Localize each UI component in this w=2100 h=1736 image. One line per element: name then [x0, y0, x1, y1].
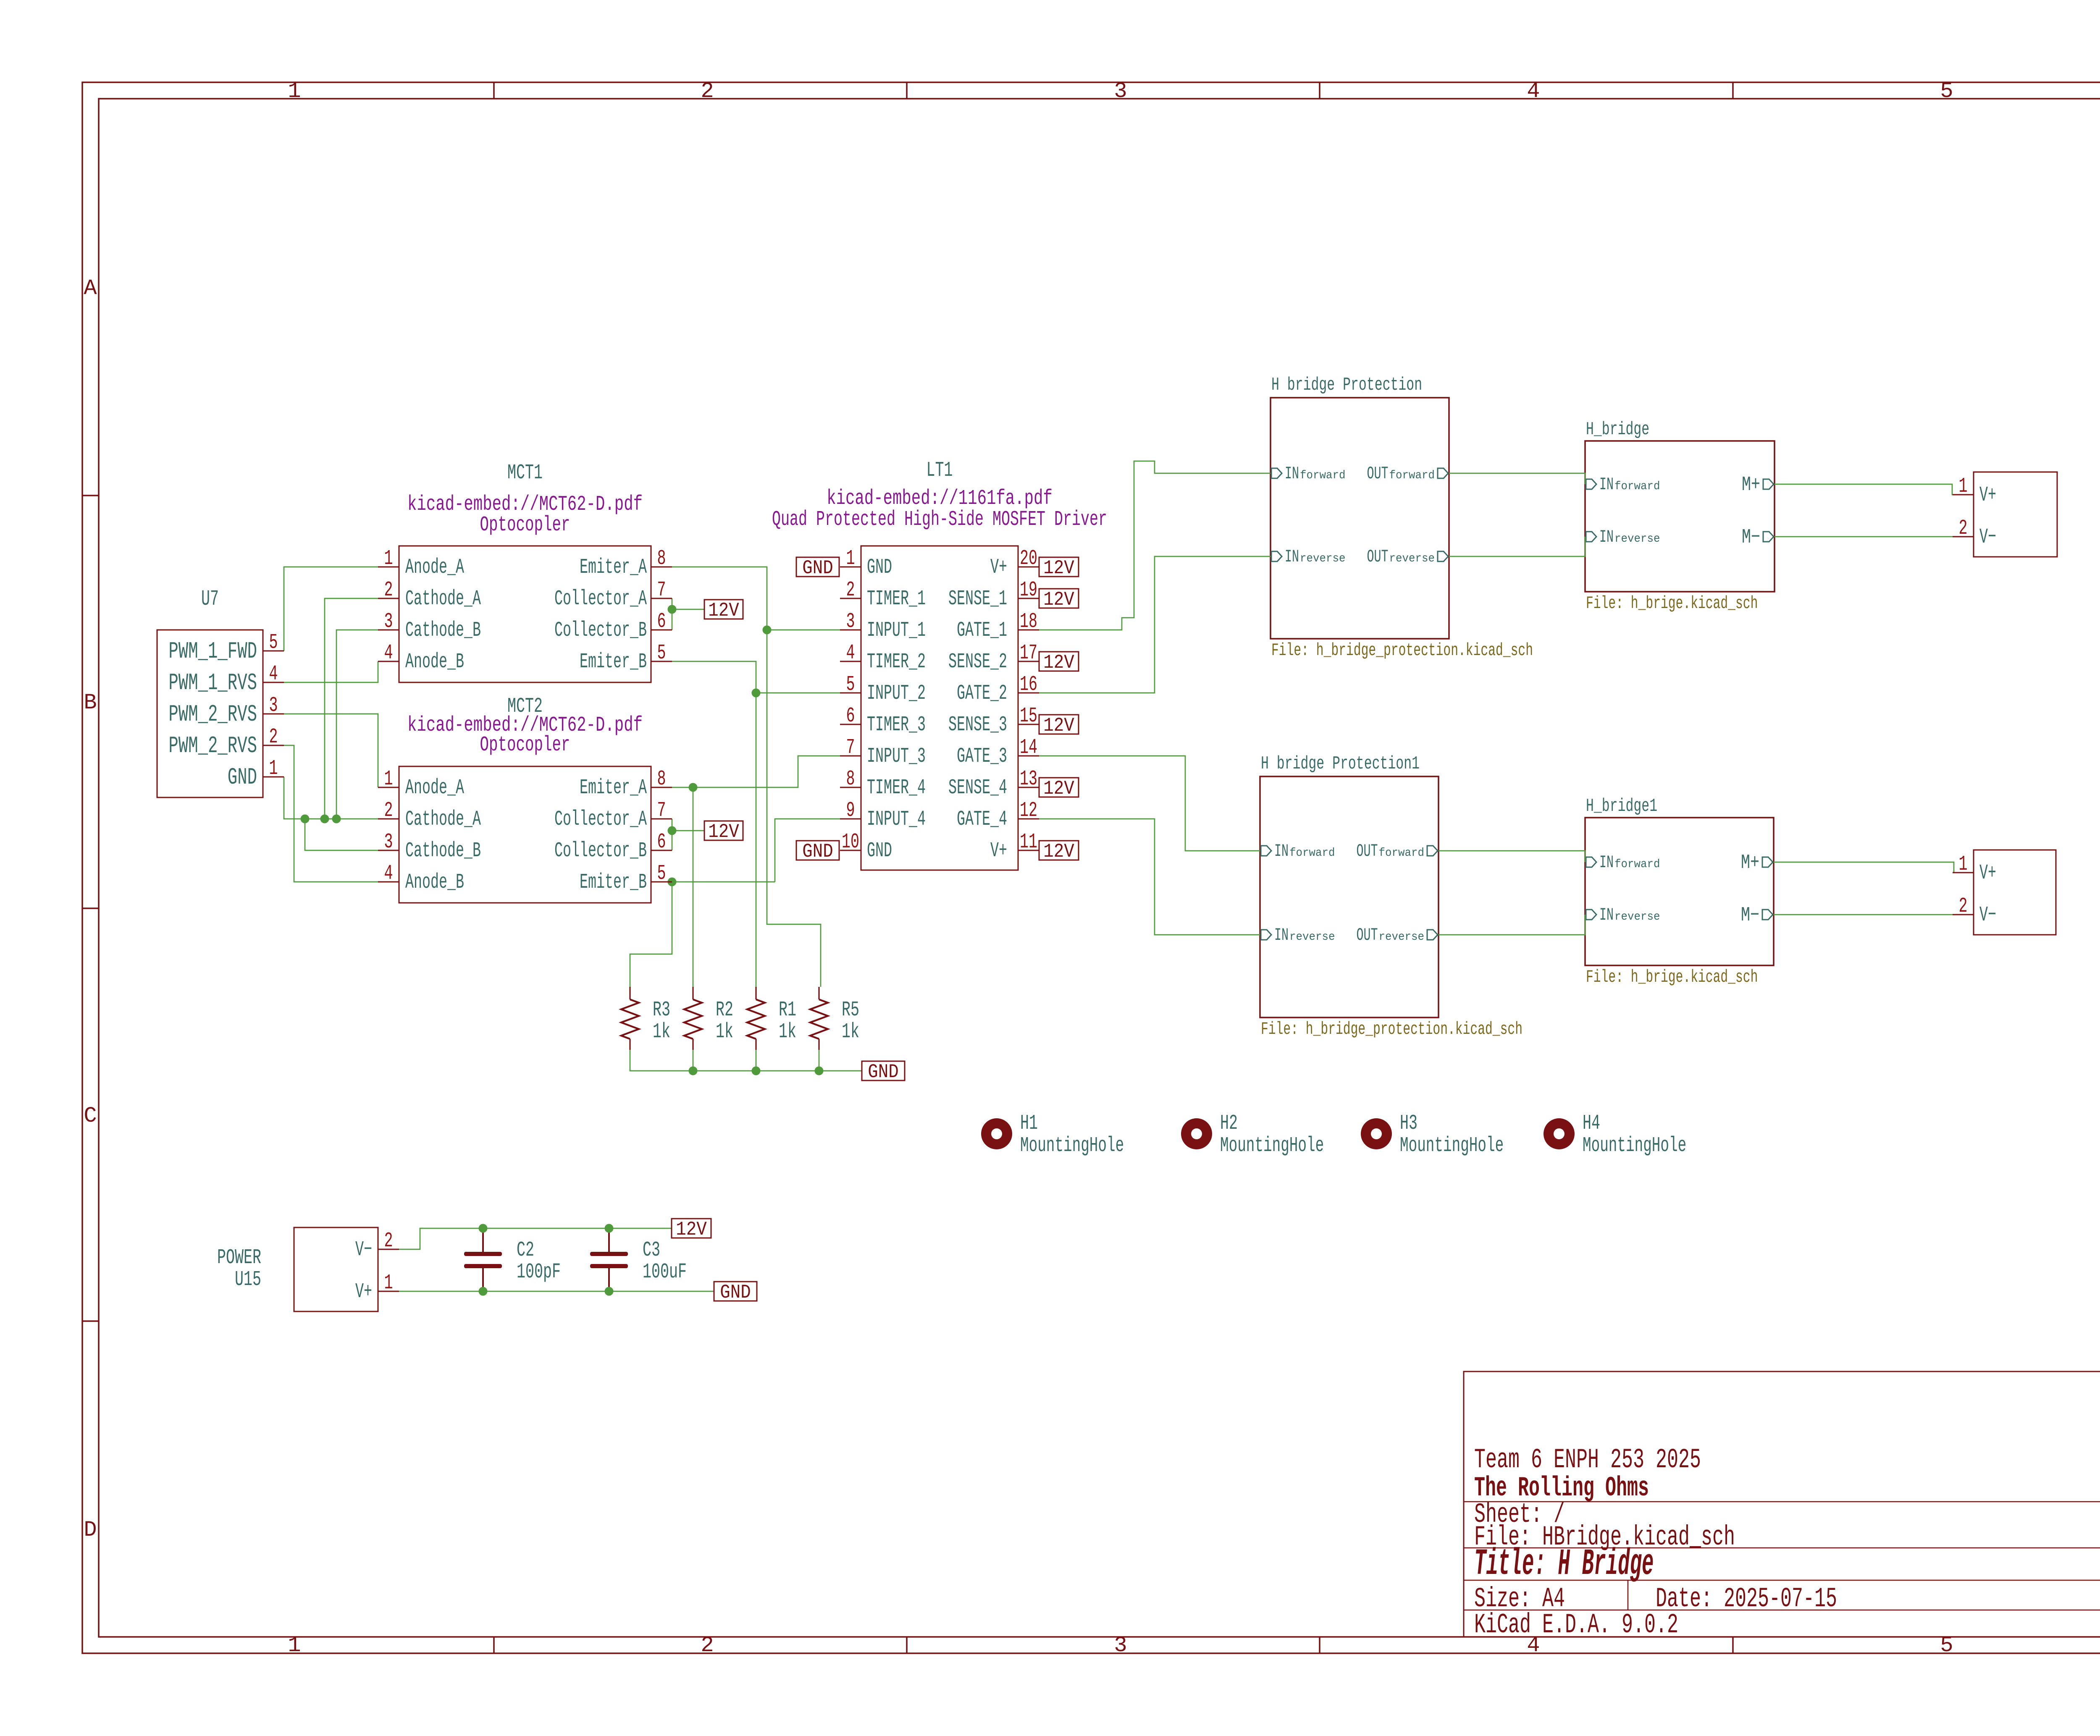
svg-text:Date: 2025-07-15: Date: 2025-07-15 — [1656, 1583, 1837, 1615]
svg-text:3: 3 — [846, 610, 855, 634]
svg-text:File: h_brige.kicad_sch: File: h_brige.kicad_sch — [1586, 593, 1758, 614]
svg-text:INPUT_4: INPUT_4 — [867, 808, 926, 831]
svg-text:MountingHole: MountingHole — [1400, 1134, 1504, 1158]
svg-text:INPUT_1: INPUT_1 — [867, 619, 926, 642]
svg-text:IN: IN — [1599, 905, 1614, 925]
svg-text:Emiter_A: Emiter_A — [580, 776, 647, 800]
svg-text:M+: M+ — [1741, 852, 1759, 874]
svg-text:MountingHole: MountingHole — [1220, 1134, 1324, 1158]
svg-text:MountingHole: MountingHole — [1020, 1134, 1124, 1158]
svg-text:TIMER_3: TIMER_3 — [867, 713, 926, 737]
svg-text:M+: M+ — [1742, 474, 1760, 496]
svg-text:forward: forward — [1389, 469, 1435, 482]
svg-text:M−: M− — [1742, 526, 1760, 549]
svg-text:Emiter_A: Emiter_A — [580, 556, 647, 580]
svg-text:IN: IN — [1274, 841, 1289, 861]
svg-text:PWM_2_RVS: PWM_2_RVS — [168, 701, 257, 728]
svg-text:R3: R3 — [653, 998, 670, 1022]
svg-text:10: 10 — [842, 830, 859, 854]
svg-text:V+: V+ — [990, 556, 1007, 580]
svg-text:Cathode_B: Cathode_B — [405, 839, 481, 863]
svg-text:GND: GND — [802, 841, 833, 863]
svg-text:4: 4 — [1527, 79, 1540, 104]
svg-text:GND: GND — [228, 764, 257, 791]
svg-text:15: 15 — [1020, 704, 1037, 728]
svg-text:H bridge Protection: H bridge Protection — [1271, 375, 1422, 396]
svg-text:5: 5 — [657, 641, 666, 665]
svg-text:7: 7 — [846, 736, 855, 760]
svg-text:OUT: OUT — [1367, 464, 1389, 484]
svg-text:12V: 12V — [1043, 652, 1074, 674]
svg-text:3: 3 — [269, 694, 278, 718]
svg-text:Title: H Bridge: Title: H Bridge — [1474, 1544, 1654, 1585]
svg-text:Collector_A: Collector_A — [554, 587, 647, 611]
svg-text:C: C — [84, 1104, 97, 1128]
svg-text:9: 9 — [846, 799, 855, 823]
svg-text:MountingHole: MountingHole — [1583, 1134, 1686, 1158]
svg-text:Optocopler: Optocopler — [480, 733, 570, 757]
svg-text:V−: V− — [1979, 903, 1996, 927]
svg-text:forward: forward — [1289, 847, 1335, 860]
svg-text:16: 16 — [1020, 673, 1037, 697]
svg-text:R2: R2 — [716, 998, 733, 1022]
svg-text:2: 2 — [384, 799, 393, 823]
svg-text:TIMER_1: TIMER_1 — [867, 587, 926, 611]
svg-text:6: 6 — [657, 830, 666, 854]
svg-text:C2: C2 — [517, 1238, 534, 1262]
svg-text:Cathode_A: Cathode_A — [405, 808, 481, 831]
svg-text:4: 4 — [846, 641, 855, 665]
svg-text:IN: IN — [1274, 925, 1289, 945]
svg-text:Anode_A: Anode_A — [405, 776, 464, 800]
svg-text:GND: GND — [802, 557, 833, 579]
svg-text:GND: GND — [867, 839, 892, 863]
svg-text:D: D — [84, 1518, 97, 1542]
svg-text:12V: 12V — [1043, 589, 1074, 611]
svg-text:GND: GND — [867, 556, 892, 580]
svg-text:V+: V+ — [355, 1280, 372, 1304]
svg-text:14: 14 — [1020, 736, 1037, 760]
svg-text:5: 5 — [1940, 79, 1953, 104]
svg-text:reverse: reverse — [1614, 532, 1660, 545]
svg-text:U7: U7 — [201, 587, 219, 611]
svg-text:12V: 12V — [676, 1219, 707, 1240]
svg-text:2: 2 — [269, 725, 278, 749]
svg-text:MCT1: MCT1 — [507, 461, 543, 485]
svg-text:19: 19 — [1020, 578, 1037, 602]
svg-text:LT1: LT1 — [927, 459, 953, 483]
svg-text:INPUT_2: INPUT_2 — [867, 682, 926, 705]
svg-text:OUT: OUT — [1357, 925, 1378, 945]
svg-text:IN: IN — [1599, 852, 1614, 873]
svg-text:H1: H1 — [1020, 1112, 1038, 1135]
svg-text:Anode_B: Anode_B — [405, 650, 464, 674]
svg-text:GATE_4: GATE_4 — [957, 808, 1007, 831]
svg-text:PWM_2_RVS: PWM_2_RVS — [168, 732, 257, 759]
svg-text:forward: forward — [1379, 847, 1425, 860]
svg-text:100pF: 100pF — [517, 1260, 561, 1284]
svg-text:12V: 12V — [1043, 841, 1074, 863]
svg-text:File: h_bridge_protection.kica: File: h_bridge_protection.kicad_sch — [1271, 640, 1533, 661]
svg-text:Team 6 ENPH 253 2025: Team 6 ENPH 253 2025 — [1474, 1444, 1701, 1476]
svg-text:KiCad E.D.A. 9.0.2: KiCad E.D.A. 9.0.2 — [1474, 1609, 1678, 1641]
svg-text:File: h_bridge_protection.kica: File: h_bridge_protection.kicad_sch — [1261, 1019, 1522, 1039]
svg-text:7: 7 — [657, 799, 666, 823]
svg-text:5: 5 — [657, 862, 666, 886]
svg-text:Quad Protected High-Side MOSFE: Quad Protected High-Side MOSFET Driver — [772, 508, 1107, 532]
svg-text:6: 6 — [846, 704, 855, 728]
svg-text:3: 3 — [384, 830, 393, 854]
svg-text:4: 4 — [269, 662, 278, 686]
svg-text:1: 1 — [288, 79, 301, 104]
svg-text:100uF: 100uF — [643, 1260, 687, 1284]
svg-text:12V: 12V — [708, 600, 739, 621]
svg-text:1: 1 — [269, 757, 278, 781]
svg-text:GATE_2: GATE_2 — [957, 682, 1007, 705]
svg-text:V−: V− — [1979, 525, 1996, 549]
svg-text:reverse: reverse — [1300, 552, 1346, 565]
svg-text:Collector_B: Collector_B — [554, 839, 647, 863]
svg-text:4: 4 — [384, 862, 393, 886]
svg-text:12V: 12V — [708, 821, 739, 843]
svg-text:reverse: reverse — [1289, 931, 1335, 944]
svg-text:1k: 1k — [779, 1020, 796, 1044]
svg-text:Collector_B: Collector_B — [554, 619, 647, 642]
svg-text:V+: V+ — [1979, 861, 1996, 885]
svg-text:SENSE_3: SENSE_3 — [948, 713, 1007, 737]
svg-text:reverse: reverse — [1614, 910, 1660, 923]
svg-text:SENSE_1: SENSE_1 — [948, 587, 1007, 611]
svg-text:R5: R5 — [842, 998, 859, 1022]
svg-text:IN: IN — [1599, 475, 1614, 495]
svg-text:GND: GND — [720, 1282, 751, 1303]
svg-text:3: 3 — [1114, 79, 1127, 104]
svg-text:GND: GND — [868, 1061, 899, 1083]
svg-text:POWER: POWER — [217, 1246, 261, 1270]
svg-text:17: 17 — [1020, 641, 1037, 665]
svg-text:TIMER_4: TIMER_4 — [867, 776, 926, 800]
svg-text:PWM_1_RVS: PWM_1_RVS — [168, 669, 257, 696]
svg-text:TIMER_2: TIMER_2 — [867, 650, 926, 674]
svg-text:11: 11 — [1020, 830, 1037, 854]
svg-text:1: 1 — [384, 767, 393, 791]
svg-text:2: 2 — [384, 578, 393, 602]
svg-text:reverse: reverse — [1379, 931, 1425, 944]
svg-text:1: 1 — [384, 547, 393, 571]
svg-text:INPUT_3: INPUT_3 — [867, 745, 926, 768]
svg-text:2: 2 — [1959, 894, 1968, 918]
svg-text:SENSE_2: SENSE_2 — [948, 650, 1007, 674]
svg-text:IN: IN — [1285, 547, 1299, 567]
svg-text:forward: forward — [1614, 480, 1660, 493]
svg-text:Optocopler: Optocopler — [480, 513, 570, 537]
svg-text:2: 2 — [701, 1633, 714, 1658]
svg-text:GATE_3: GATE_3 — [957, 745, 1007, 768]
svg-text:8: 8 — [657, 767, 666, 791]
svg-text:1: 1 — [1959, 475, 1968, 498]
svg-text:V−: V− — [355, 1238, 372, 1262]
svg-text:SENSE_4: SENSE_4 — [948, 776, 1007, 800]
svg-text:1k: 1k — [653, 1020, 670, 1044]
svg-text:Collector_A: Collector_A — [554, 808, 647, 831]
svg-text:H_bridge1: H_bridge1 — [1586, 796, 1657, 817]
svg-text:12: 12 — [1020, 799, 1037, 823]
svg-text:File: h_brige.kicad_sch: File: h_brige.kicad_sch — [1586, 967, 1758, 987]
svg-text:1: 1 — [846, 547, 855, 571]
svg-text:H_bridge: H_bridge — [1586, 419, 1649, 440]
svg-text:reverse: reverse — [1389, 552, 1435, 565]
svg-text:R1: R1 — [779, 998, 796, 1022]
svg-text:8: 8 — [657, 547, 666, 571]
svg-text:IN: IN — [1599, 527, 1614, 547]
svg-text:B: B — [84, 690, 97, 715]
svg-text:2: 2 — [701, 79, 714, 104]
svg-text:Anode_B: Anode_B — [405, 871, 464, 894]
svg-text:H bridge Protection1: H bridge Protection1 — [1261, 753, 1420, 774]
svg-text:IN: IN — [1285, 464, 1299, 484]
svg-text:V+: V+ — [1979, 483, 1996, 507]
svg-text:forward: forward — [1300, 469, 1346, 482]
svg-text:13: 13 — [1020, 767, 1037, 791]
svg-text:20: 20 — [1020, 547, 1037, 571]
svg-text:GATE_1: GATE_1 — [957, 619, 1007, 642]
svg-text:12V: 12V — [1043, 778, 1074, 800]
svg-text:18: 18 — [1020, 610, 1037, 634]
svg-text:12V: 12V — [1043, 715, 1074, 737]
svg-text:Cathode_B: Cathode_B — [405, 619, 481, 642]
svg-text:H3: H3 — [1400, 1112, 1417, 1135]
svg-text:Emiter_B: Emiter_B — [580, 871, 647, 894]
svg-text:M−: M− — [1741, 904, 1759, 927]
svg-text:3: 3 — [1114, 1633, 1127, 1658]
svg-text:2: 2 — [1959, 517, 1968, 540]
svg-text:1k: 1k — [842, 1020, 859, 1044]
svg-text:OUT: OUT — [1357, 841, 1378, 861]
svg-text:Emiter_B: Emiter_B — [580, 650, 647, 674]
svg-text:8: 8 — [846, 767, 855, 791]
svg-text:kicad-embed://1161fa.pdf: kicad-embed://1161fa.pdf — [827, 487, 1053, 511]
svg-text:6: 6 — [657, 610, 666, 634]
svg-text:3: 3 — [384, 610, 393, 634]
svg-text:Anode_A: Anode_A — [405, 556, 464, 580]
svg-text:V+: V+ — [990, 839, 1007, 863]
svg-text:PWM_1_FWD: PWM_1_FWD — [168, 638, 257, 665]
svg-text:12V: 12V — [1043, 557, 1074, 579]
svg-text:OUT: OUT — [1367, 547, 1389, 567]
svg-text:1: 1 — [384, 1271, 393, 1295]
svg-text:1: 1 — [1959, 852, 1968, 876]
svg-text:2: 2 — [846, 578, 855, 602]
svg-text:7: 7 — [657, 578, 666, 602]
svg-text:4: 4 — [384, 641, 393, 665]
svg-text:C3: C3 — [643, 1238, 660, 1262]
svg-text:5: 5 — [269, 631, 278, 655]
svg-text:forward: forward — [1614, 858, 1660, 871]
svg-text:2: 2 — [384, 1229, 393, 1253]
svg-text:H2: H2 — [1220, 1112, 1238, 1135]
svg-text:Cathode_A: Cathode_A — [405, 587, 481, 611]
svg-text:5: 5 — [846, 673, 855, 697]
svg-text:A: A — [84, 276, 97, 301]
svg-text:1k: 1k — [716, 1020, 733, 1044]
svg-text:H4: H4 — [1583, 1112, 1600, 1135]
svg-text:U15: U15 — [235, 1268, 261, 1292]
svg-text:1: 1 — [288, 1633, 301, 1658]
